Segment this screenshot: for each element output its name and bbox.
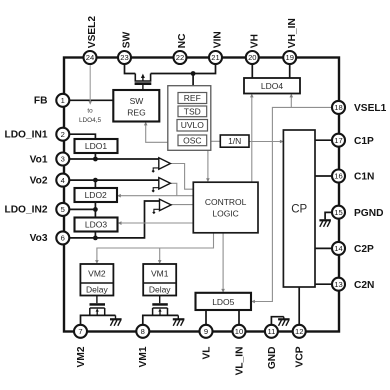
wire pin15 PGND stub xyxy=(325,212,335,219)
wire CP to pin16 C1N xyxy=(315,175,333,177)
pin 17 C1P xyxy=(332,134,345,147)
svg-text:VM2: VM2 xyxy=(76,346,87,367)
wire reference group to CONTROL LOGIC (gray, arrow down) xyxy=(206,150,210,182)
svg-text:13: 13 xyxy=(334,280,342,289)
node Vo2 junction dot xyxy=(93,178,98,183)
svg-text:VL_IN: VL_IN xyxy=(234,347,245,376)
wire Vo1 pin3 line to comparator A1 xyxy=(63,158,159,160)
svg-text:8: 8 xyxy=(141,327,145,336)
op-amp A3 comparator Vo3 xyxy=(152,199,171,214)
wire comparator A3 output to CONTROL LOGIC (gray) xyxy=(171,204,193,206)
pin 5 LDO_IN2 xyxy=(56,203,69,216)
pin 15 PGND xyxy=(332,206,345,219)
svg-text:GND: GND xyxy=(267,347,278,370)
block LDO5 xyxy=(196,293,252,310)
block 1/N divider xyxy=(220,135,249,147)
svg-text:17: 17 xyxy=(334,136,342,145)
wire LDO5 to pin10 VL_IN xyxy=(238,310,240,331)
pin 7 VM2 xyxy=(74,325,87,338)
block TSD xyxy=(178,106,207,117)
svg-text:UVLO: UVLO xyxy=(181,120,205,130)
svg-text:NC: NC xyxy=(177,33,188,48)
svg-text:C2P: C2P xyxy=(354,244,374,255)
svg-text:LDO_IN2: LDO_IN2 xyxy=(4,205,47,216)
pin 2 LDO_IN1 xyxy=(56,128,69,141)
wire LDO_IN2 line down to LDO3 input xyxy=(94,209,96,217)
wire pin2 LDO_IN1 to LDO1 input xyxy=(63,134,96,139)
wire LDO2 enable from CONTROL LOGIC (gray, arrow left) xyxy=(117,194,193,198)
svg-text:OSC: OSC xyxy=(183,135,201,145)
svg-text:16: 16 xyxy=(334,172,342,181)
svg-text:to: to xyxy=(87,107,93,114)
svg-text:CP: CP xyxy=(291,204,307,216)
svg-text:LOGIC: LOGIC xyxy=(212,208,238,218)
svg-text:C2N: C2N xyxy=(354,280,374,291)
transistor Q1 PMOS at SW REG top xyxy=(135,74,152,91)
wire pin11 GND riser xyxy=(271,317,283,331)
svg-text:Delay: Delay xyxy=(149,284,171,294)
svg-text:LDO4,5: LDO4,5 xyxy=(79,117,101,124)
wire PMOS to junction to pin21 riser xyxy=(151,58,216,74)
ground G4 at pin15 PGND xyxy=(319,220,331,227)
wire LDO1 output down to Vo1 line xyxy=(94,153,96,159)
svg-text:LDO1: LDO1 xyxy=(85,141,107,151)
wire Vo2 pin4 line to comparator A2 xyxy=(63,179,159,181)
wire comparator A2 output to CONTROL LOGIC (gray) xyxy=(170,183,176,195)
pin 20 VH xyxy=(246,51,259,64)
block OSC xyxy=(178,135,207,146)
wire LDO2 output up from Vo2 line xyxy=(94,180,96,188)
pin 12 VCP xyxy=(293,325,306,338)
svg-text:Vo3: Vo3 xyxy=(30,233,48,244)
wire CONTROL LOGIC down to LDO5 (gray, arrow down) xyxy=(221,233,225,293)
wire junction VIN down to reference group xyxy=(192,74,194,86)
svg-text:VCP: VCP xyxy=(295,346,306,367)
svg-text:12: 12 xyxy=(295,327,303,336)
svg-text:SW: SW xyxy=(122,31,133,48)
svg-text:11: 11 xyxy=(267,327,275,336)
wire pin19 VH_IN down to LDO4 xyxy=(289,58,291,79)
svg-text:SW: SW xyxy=(130,96,144,106)
block LDO3 xyxy=(75,218,118,232)
svg-text:9: 9 xyxy=(204,327,208,336)
svg-text:2: 2 xyxy=(61,130,65,139)
pin 24 VSEL2 xyxy=(84,51,97,64)
transistor Q2 NMOS under VM2 Delay xyxy=(90,296,106,316)
block SW REG xyxy=(113,90,159,122)
svg-text:TSD: TSD xyxy=(184,106,201,116)
pin 10 VL_IN xyxy=(233,325,246,338)
svg-text:Delay: Delay xyxy=(86,284,108,294)
pin 19 VH_IN xyxy=(283,51,296,64)
transistor Q3 NMOS under VM1 Delay xyxy=(152,296,168,316)
pin 23 SW xyxy=(118,51,131,64)
ground G3 at pin11 xyxy=(278,317,290,326)
pin 18 VSEL1 xyxy=(332,101,345,114)
wire pin5 LDO_IN2 line xyxy=(63,208,96,210)
wire pin20 VH down to LDO4 xyxy=(251,58,253,79)
svg-text:VSEL1: VSEL1 xyxy=(354,103,387,114)
svg-text:23: 23 xyxy=(120,53,128,62)
svg-text:REG: REG xyxy=(127,107,145,117)
svg-text:VH_IN: VH_IN xyxy=(287,18,298,48)
svg-text:VM1: VM1 xyxy=(151,269,169,279)
svg-text:CONTROL: CONTROL xyxy=(205,197,247,207)
wire LDO3 output down to Vo3 line xyxy=(94,232,96,238)
wire VSEL1 branch up to LDO4 (gray, arrow up) xyxy=(290,94,294,108)
svg-text:Vo2: Vo2 xyxy=(30,175,48,186)
wire CONTROL LOGIC to VM2 and VM1 (gray, arrows down) xyxy=(95,233,213,264)
node Vo1 junction dot xyxy=(93,157,98,162)
svg-text:LDO2: LDO2 xyxy=(85,190,107,200)
op-amp A1 comparator Vo1 xyxy=(152,158,171,173)
svg-text:21: 21 xyxy=(211,53,219,62)
wire reference group to SW REG (gray, arrow up) xyxy=(144,122,168,143)
pin 14 C2P xyxy=(332,242,345,255)
block LDO2 xyxy=(75,188,118,202)
svg-text:PGND: PGND xyxy=(354,208,383,219)
wire pin7 VM2 drain line xyxy=(81,315,116,331)
block REF xyxy=(178,93,207,104)
node VIN junction dot xyxy=(191,71,196,76)
pin 4 Vo2 xyxy=(56,174,69,187)
pin 8 VM1 xyxy=(136,325,149,338)
node LDO_IN2 junction dot xyxy=(93,207,98,212)
pin 21 VIN xyxy=(209,51,222,64)
svg-text:15: 15 xyxy=(334,208,342,217)
pin 13 C2N xyxy=(332,278,345,291)
svg-text:6: 6 xyxy=(61,234,65,243)
wire CP to pin13 C2N xyxy=(315,283,333,285)
svg-text:1: 1 xyxy=(61,96,65,105)
block VM1 with Delay xyxy=(143,264,176,296)
svg-text:24: 24 xyxy=(86,53,94,62)
pin 22 NC xyxy=(174,51,187,64)
svg-text:19: 19 xyxy=(285,53,293,62)
node Vo3 junction dot xyxy=(93,236,98,241)
op-amp A2 comparator Vo2 xyxy=(152,178,171,193)
svg-text:Vo1: Vo1 xyxy=(30,154,48,165)
wire CP to pin17 C1P xyxy=(315,139,333,141)
block LDO1 xyxy=(75,139,118,153)
svg-text:7: 7 xyxy=(78,327,82,336)
svg-text:REF: REF xyxy=(184,93,201,103)
svg-text:20: 20 xyxy=(248,53,256,62)
pin 16 C1N xyxy=(332,170,345,183)
svg-text:LDO_IN1: LDO_IN1 xyxy=(4,130,47,141)
pin 1 FB xyxy=(56,94,69,107)
wire LDO5 to pin9 VL xyxy=(205,310,207,331)
block reference group box xyxy=(168,86,211,151)
wire LDO2 bottom to LDO_IN2 line xyxy=(94,202,96,209)
wire comparator A1 output to CONTROL LOGIC (gray) xyxy=(170,164,193,190)
wire 1/N to CP (gray, arrow right) xyxy=(249,140,284,144)
svg-text:VSEL2: VSEL2 xyxy=(87,16,98,49)
pin 3 Vo1 xyxy=(56,153,69,166)
wire CP bottom to pin12 VCP xyxy=(298,287,300,331)
svg-text:VM1: VM1 xyxy=(138,346,149,367)
svg-text:VIN: VIN xyxy=(213,31,224,48)
svg-text:VM2: VM2 xyxy=(88,269,106,279)
block VM2 with Delay xyxy=(80,264,113,296)
wire VSEL1 pin18 to LDO5 (gray) xyxy=(251,107,333,303)
chip boundary box xyxy=(64,58,339,332)
wire pin8 VM1 drain line xyxy=(143,315,179,331)
block CONTROL LOGIC xyxy=(193,182,258,233)
block CP charge pump xyxy=(283,130,315,287)
wire CP to pin14 C2P xyxy=(315,247,333,249)
svg-text:LDO5: LDO5 xyxy=(212,297,234,307)
svg-text:18: 18 xyxy=(334,103,342,112)
svg-text:VH: VH xyxy=(250,34,261,48)
svg-text:10: 10 xyxy=(235,327,243,336)
svg-text:LDO4: LDO4 xyxy=(261,81,283,91)
block LDO4 xyxy=(244,78,300,94)
ground G2 at VM1 transistor xyxy=(173,315,185,325)
svg-text:C1P: C1P xyxy=(354,136,374,147)
svg-text:LDO3: LDO3 xyxy=(85,220,107,230)
svg-text:22: 22 xyxy=(176,53,184,62)
label to LDO4,5 xyxy=(79,107,101,124)
wire FB pin1 to SW REG xyxy=(63,99,114,101)
ground G1 at VM2 transistor xyxy=(110,315,122,325)
wire LDO3 enable from CONTROL LOGIC (gray, arrow left) xyxy=(118,221,194,225)
svg-text:1/N: 1/N xyxy=(228,136,241,146)
svg-text:5: 5 xyxy=(61,205,65,214)
svg-text:FB: FB xyxy=(34,96,48,107)
wire VSEL2 pin24 to LDO4,5 (gray) xyxy=(88,64,92,105)
block UVLO xyxy=(177,120,208,132)
pin 9 VL xyxy=(200,325,213,338)
svg-text:VL: VL xyxy=(201,347,212,360)
wire pin23 down to PMOS xyxy=(125,58,136,74)
svg-text:4: 4 xyxy=(61,176,65,185)
svg-text:3: 3 xyxy=(61,155,65,164)
pin 11 GND xyxy=(265,325,278,338)
pin 6 Vo3 xyxy=(56,231,69,244)
svg-text:C1N: C1N xyxy=(354,172,374,183)
svg-text:14: 14 xyxy=(334,244,342,253)
wire CONTROL LOGIC up to LDO4 enable (gray, arrow up) xyxy=(250,94,254,183)
wire Vo3 pin6 line riser to comparator A3 xyxy=(63,201,160,238)
wire reference group to 1/N xyxy=(211,140,221,142)
